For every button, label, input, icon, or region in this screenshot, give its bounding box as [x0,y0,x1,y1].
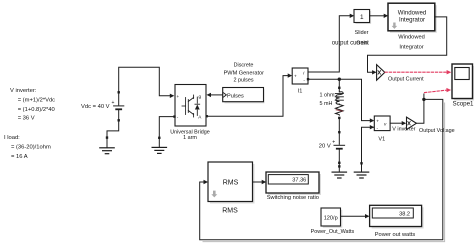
Universal Bridge block U1 [175,85,206,127]
resistor zigzag [335,105,343,116]
RMS block [208,162,255,204]
svg-text:RMS: RMS [222,208,238,215]
svg-text:= (m+1)/2*Vdc: = (m+1)/2*Vdc [18,98,55,104]
svg-text:= 16 A: = 16 A [11,154,28,160]
svg-text:I1: I1 [298,88,303,94]
svg-text:38.2: 38.2 [399,211,410,217]
display: Power out watts (38.2) [370,205,424,228]
svg-text:+: + [177,94,180,99]
wire: RMS output to Display [253,181,262,183]
svg-text:Output Voltage: Output Voltage [419,128,455,134]
svg-text:= (36-20)/1ohm: = (36-20)/1ohm [11,145,51,151]
annotation: I load formula text [4,135,51,160]
wire: 40V source top to bridge + input [119,67,170,96]
svg-text:V1: V1 [378,136,385,142]
wire: junction right and down to bottom feedback run [200,99,443,239]
svg-text:V inverter:: V inverter: [10,88,37,94]
wire: 120/p to Power out watts display [341,215,366,217]
svg-text:37.36: 37.36 [292,177,306,183]
wire: 40V source bottom to ground [107,122,119,137]
wire: I1 i output up to Slider Gain [308,16,350,72]
svg-text:1 arm: 1 arm [183,135,197,141]
svg-text:120/p: 120/p [324,216,338,222]
Fcn block 120/p [321,208,342,228]
svg-text:output current: output current [332,41,369,47]
dashed signal: Output Voltage to Scope1 input 2 [425,90,447,93]
dashed signal: Output Current to Scope1 input 1 [385,71,447,73]
svg-text:+: + [332,140,335,146]
DC voltage source 20V [332,131,344,164]
svg-text:Power_Out_Watts: Power_Out_Watts [311,229,355,235]
wire: Windowed Integrator output wrap-around to Output Current gain [368,17,447,72]
annotation: V inverter formula text [10,88,55,122]
DC voltage source Vdc 40V [112,91,124,121]
wire: Pulses output to bridge g input [211,94,223,96]
wire: V1 - input down to ground G4 [362,127,375,162]
svg-text:Pulses: Pulses [227,94,244,100]
svg-text:Discrete: Discrete [234,62,254,68]
junction node at RL branch top [338,78,341,81]
Slider Gain block [354,10,371,25]
gain triangle: Output Voltage [407,117,417,129]
svg-text:Slider: Slider [355,30,369,36]
inductor coil [336,89,343,105]
svg-text:RMS: RMS [223,179,239,186]
svg-text:PWM Generator: PWM Generator [224,70,265,76]
svg-text:Scope1: Scope1 [453,100,474,107]
svg-text:+: + [112,100,115,106]
ground G1 (below 40V source) [100,136,114,153]
wire: Output Voltage gain up to junction [416,94,424,123]
ground G4 (below V1 -) [354,162,368,178]
voltage measurement V1 [374,116,390,131]
svg-text:Switching noise ratio: Switching noise ratio [267,195,319,201]
ground G2 (below bridge -) [152,137,166,154]
svg-text:V inverter: V inverter [392,126,415,132]
Discrete PWM Generator block (Pulses) [223,88,265,104]
wire: I1 - output to junction and V1 + [308,79,370,120]
svg-text:Windowed: Windowed [398,35,425,41]
display: Switching noise ratio (37.36) [266,172,321,195]
svg-text:+: + [376,120,379,125]
svg-text:= (1+0.8)/2*40: = (1+0.8)/2*40 [18,107,55,113]
gain triangle: Output Current [377,65,385,81]
svg-text:g: g [199,94,202,99]
svg-text:1: 1 [360,14,364,21]
wire: 20V bottom to ground G3 [338,164,340,166]
IGBT and diode icon inside bridge [182,95,200,117]
current measurement I1 [292,68,308,84]
svg-text:2 pulses: 2 pulses [233,78,253,84]
svg-text:1 ohm: 1 ohm [320,92,335,98]
svg-text:20 V: 20 V [319,144,331,150]
wire: junction down to RL branch [338,79,340,87]
svg-text:Integrator: Integrator [399,44,423,50]
wire: bridge A output to I1 + input [206,76,288,117]
wire: Slider Gain to Windowed Integrator [370,15,384,17]
svg-text:5 mH: 5 mH [320,101,333,107]
shadow of feedback wire [203,103,445,242]
svg-text:Output Current: Output Current [388,77,424,83]
wire: bridge - port to ground G2 [159,117,174,137]
series RLC branch: 1 ohm 5 mH [335,87,343,131]
ground G3 (below 20V source) [332,165,346,178]
svg-text:Integrator: Integrator [399,16,425,23]
svg-text:Power out watts: Power out watts [375,232,416,238]
svg-text:= 36 V: = 36 V [18,116,35,122]
svg-text:Vdc = 40 V: Vdc = 40 V [81,104,110,110]
wire: V1 v output to Output Voltage gain [390,122,402,124]
svg-text:+: + [294,75,297,80]
Windowed Integrator block [388,3,437,33]
junction node at output voltage tap [422,98,425,101]
Scope1 block [452,64,474,101]
svg-text:I load:: I load: [4,135,20,141]
arrowhead into bridge + port [170,94,175,98]
